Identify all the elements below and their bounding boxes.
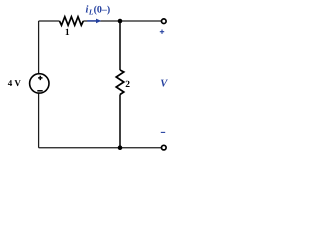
svg-text:4 V: 4 V xyxy=(8,78,22,88)
svg-text:2: 2 xyxy=(125,80,130,90)
svg-text:1: 1 xyxy=(65,28,70,38)
svg-text:V: V xyxy=(160,79,168,90)
svg-text:(0–): (0–) xyxy=(94,4,111,15)
